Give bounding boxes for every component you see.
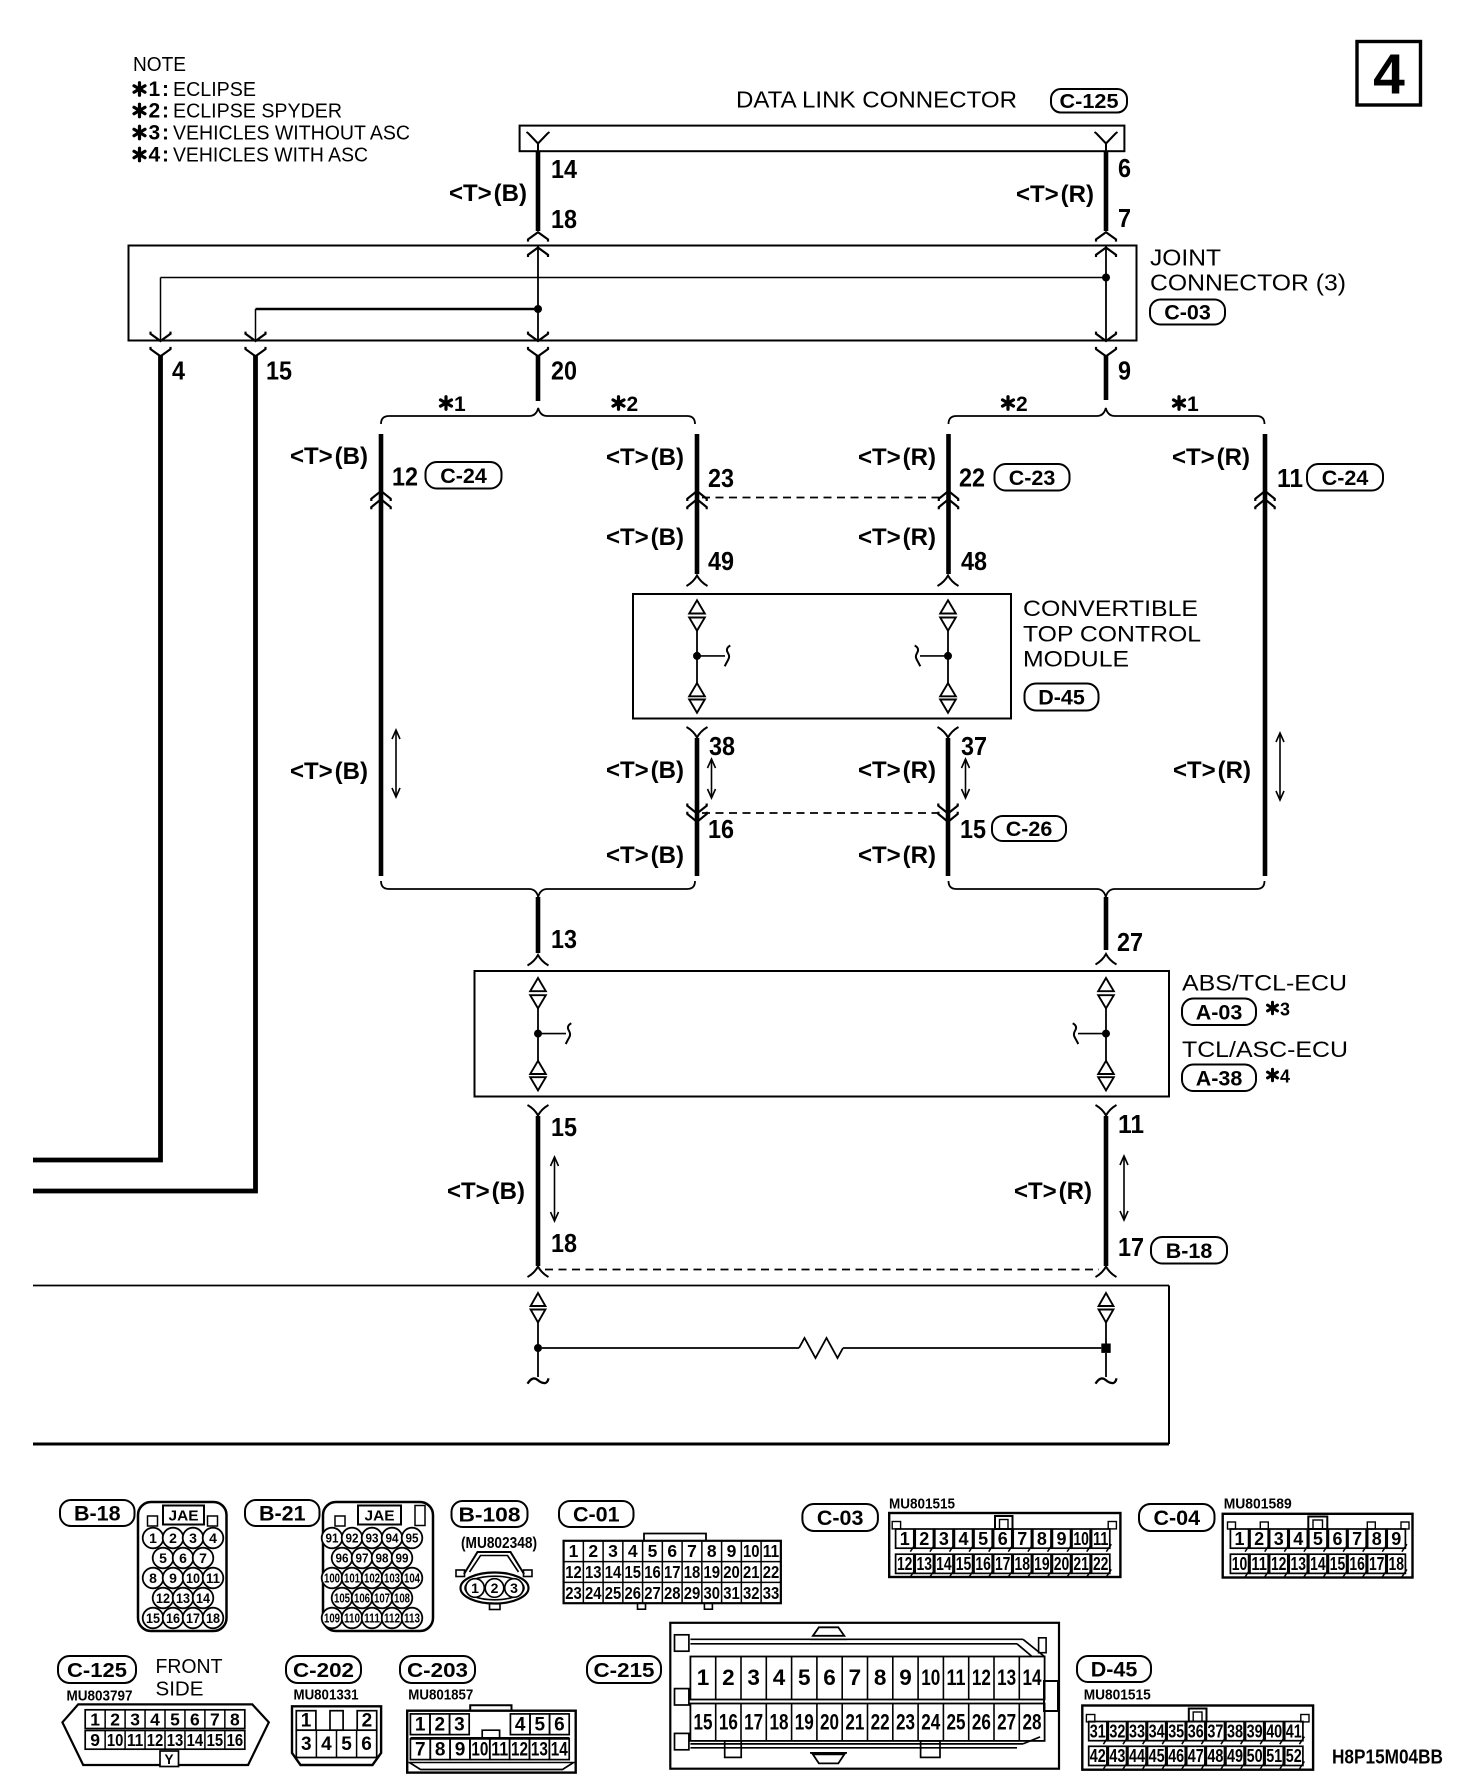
svg-text:109: 109 <box>324 1612 340 1626</box>
svg-text:VEHICLES WITHOUT ASC: VEHICLES WITHOUT ASC <box>173 123 410 145</box>
connector badge C-203 view <box>400 1656 475 1683</box>
variant label star3 <box>1268 1000 1291 1020</box>
svg-text:D-45: D-45 <box>1038 686 1085 710</box>
svg-text:12: 12 <box>897 1554 913 1574</box>
svg-text:<T>(B): <T>(B) <box>606 757 684 784</box>
svg-text:C-125: C-125 <box>1060 90 1119 113</box>
chevrons at joint connector pin 18 entry <box>528 232 548 257</box>
chevrons at joint connector pin 7 entry <box>1096 232 1116 257</box>
svg-text:48: 48 <box>1207 1746 1223 1766</box>
svg-text:103: 103 <box>384 1572 400 1586</box>
pin label 11 <box>1277 463 1303 493</box>
svg-text:17: 17 <box>744 1710 763 1735</box>
svg-text:15: 15 <box>207 1730 224 1750</box>
svg-text:32: 32 <box>1109 1721 1125 1741</box>
svg-text:6: 6 <box>179 1550 187 1566</box>
svg-text:7: 7 <box>687 1541 697 1561</box>
svg-text:3: 3 <box>1280 1000 1290 1020</box>
svg-text:5: 5 <box>170 1710 180 1730</box>
svg-text:6: 6 <box>190 1710 200 1730</box>
pin label 4 <box>172 356 185 386</box>
label DATA LINK CONNECTOR <box>736 87 1017 113</box>
pin label 27 <box>1117 927 1143 957</box>
svg-text:3: 3 <box>301 1734 312 1755</box>
wire label T B mid left branch1 <box>290 758 368 785</box>
terminating resistor box <box>33 1286 1169 1445</box>
svg-text:1: 1 <box>149 78 161 101</box>
connector badge C-202 view <box>286 1656 361 1683</box>
svg-text:11: 11 <box>1251 1554 1267 1574</box>
svg-text:27: 27 <box>997 1710 1016 1735</box>
svg-text:10: 10 <box>471 1740 488 1761</box>
pin label 14 <box>551 154 577 184</box>
svg-text:6: 6 <box>667 1541 677 1561</box>
svg-text:(MU802348): (MU802348) <box>461 1535 537 1552</box>
svg-text:NOTE: NOTE <box>133 54 186 76</box>
svg-text:C-26: C-26 <box>1006 817 1053 841</box>
svg-text:<T>(B): <T>(B) <box>290 443 368 470</box>
svg-text:1: 1 <box>569 1541 579 1561</box>
harness split brace right <box>949 408 1265 424</box>
svg-text:16: 16 <box>1349 1554 1365 1574</box>
svg-text:108: 108 <box>394 1592 410 1606</box>
svg-text:5: 5 <box>159 1550 167 1566</box>
svg-text:1: 1 <box>90 1710 100 1730</box>
svg-text:33: 33 <box>1129 1721 1145 1741</box>
svg-text:3: 3 <box>1274 1529 1284 1549</box>
svg-text:20: 20 <box>820 1710 839 1735</box>
connector badge C-125 view <box>58 1656 136 1683</box>
connector view B-108 <box>456 1535 537 1610</box>
svg-text:2: 2 <box>588 1541 598 1561</box>
svg-text:6: 6 <box>554 1715 565 1736</box>
connector badge C-24 left <box>426 462 502 489</box>
inter-branch dashed link upper <box>702 497 945 499</box>
svg-text:2: 2 <box>1254 1529 1264 1549</box>
chevrons at joint connector pin 20 exit <box>528 332 548 357</box>
svg-text:17: 17 <box>186 1610 200 1626</box>
connector view C-125 <box>62 1689 268 1767</box>
inter-branch dashed link lower <box>702 812 943 814</box>
wire branch spyder B (C-24 pin 23) <box>695 434 700 574</box>
svg-text:ECLIPSE SPYDER: ECLIPSE SPYDER <box>173 101 342 123</box>
svg-text:44: 44 <box>1129 1746 1145 1766</box>
variant label star2 left <box>613 393 638 416</box>
fork out of module pin 37 <box>938 727 959 738</box>
svg-text:7: 7 <box>849 1665 862 1690</box>
pin label 37 <box>961 731 987 761</box>
svg-text:1: 1 <box>454 393 466 416</box>
wire ABS pin 15 down <box>536 1116 541 1266</box>
pin label 22 <box>959 463 985 493</box>
svg-text:49: 49 <box>708 546 734 576</box>
twisted pair arrow branch4 <box>1276 733 1284 800</box>
svg-text:9: 9 <box>1118 356 1131 386</box>
svg-text:39: 39 <box>1247 1721 1263 1741</box>
note legend <box>133 54 410 167</box>
wire label T R branch3 <box>858 444 936 471</box>
svg-text:94: 94 <box>386 1532 399 1546</box>
svg-text:2: 2 <box>491 1580 499 1596</box>
svg-text:MODULE: MODULE <box>1023 647 1129 672</box>
variant label star1 right <box>1174 393 1200 416</box>
svg-text:2: 2 <box>110 1710 120 1730</box>
pin label 11 abs <box>1118 1109 1144 1139</box>
svg-text:19: 19 <box>703 1562 720 1582</box>
connector view B-21 <box>322 1502 433 1631</box>
page number 4 badge <box>1357 42 1421 107</box>
svg-text:21: 21 <box>1073 1554 1089 1574</box>
svg-text:11: 11 <box>1093 1529 1109 1549</box>
variant label star4 <box>1268 1067 1291 1087</box>
svg-text:16: 16 <box>644 1562 661 1582</box>
svg-text:95: 95 <box>406 1532 419 1546</box>
junction dot bus2 pin18 <box>534 305 542 313</box>
joint connector internal wire pin 4 <box>160 278 162 341</box>
svg-text:2: 2 <box>627 393 639 416</box>
svg-text:13: 13 <box>531 1740 548 1761</box>
svg-text:<T>(R): <T>(R) <box>1172 444 1250 471</box>
pin label 23 <box>708 463 734 493</box>
bottom box pin triangles left <box>531 1293 546 1323</box>
junction dot bus1 pin7 <box>1102 274 1110 282</box>
connector badge C-24 right <box>1307 464 1383 491</box>
svg-text:11: 11 <box>1118 1109 1144 1139</box>
fork into bottom box right <box>1096 1267 1117 1278</box>
svg-text:9: 9 <box>90 1730 100 1750</box>
connector badge C-01 view <box>559 1501 634 1527</box>
svg-text:99: 99 <box>396 1552 409 1566</box>
joint connector C-03 box <box>129 246 1137 341</box>
svg-text:2: 2 <box>149 100 161 123</box>
pin label 13 <box>551 924 577 954</box>
svg-text:9: 9 <box>455 1740 466 1761</box>
svg-text:22: 22 <box>871 1710 890 1735</box>
connector badge D-45 <box>1025 684 1099 711</box>
joint connector internal wire pin 7 down <box>1105 246 1107 341</box>
svg-text:10: 10 <box>921 1665 940 1690</box>
pin label 48 <box>961 546 987 576</box>
ABS internal pin circuit left <box>530 978 571 1090</box>
svg-text:13: 13 <box>176 1590 190 1606</box>
svg-text:MU801515: MU801515 <box>889 1497 955 1513</box>
svg-text:35: 35 <box>1168 1721 1184 1741</box>
svg-text:12: 12 <box>147 1730 164 1750</box>
wire from DLC pin 14 to joint connector pin 18 <box>536 151 541 231</box>
wire label T B left top <box>449 180 527 207</box>
wire stub to ABS pin 13 <box>536 897 541 953</box>
svg-text:D-45: D-45 <box>1091 1658 1138 1682</box>
svg-text:12: 12 <box>511 1740 528 1761</box>
fork out of ABS pin 15 <box>528 1105 549 1116</box>
chevrons connector pin 23 <box>687 491 706 509</box>
svg-text:4: 4 <box>209 1530 217 1546</box>
wire label T B branch1 <box>290 443 368 470</box>
svg-text:15: 15 <box>266 356 292 386</box>
svg-text:19: 19 <box>1034 1554 1050 1574</box>
connector badge A-03 <box>1182 999 1256 1026</box>
fork into ABS pin 13 <box>528 955 549 966</box>
wire branch eclipse B (C-24 pin 12) <box>379 434 384 876</box>
svg-text:5: 5 <box>1313 1529 1323 1549</box>
chevrons connector C-24 right <box>1255 491 1274 509</box>
svg-text:18: 18 <box>206 1610 220 1626</box>
chevrons connector C-23 <box>939 491 958 509</box>
svg-text:38: 38 <box>709 731 735 761</box>
svg-text:52: 52 <box>1286 1746 1302 1766</box>
svg-text:29: 29 <box>684 1583 701 1603</box>
wire label T B bottom <box>447 1178 525 1205</box>
svg-text:CONNECTOR (3): CONNECTOR (3) <box>1150 270 1346 296</box>
connector badge B-18 wire <box>1151 1237 1227 1264</box>
svg-text:18: 18 <box>1015 1554 1031 1574</box>
svg-text:25: 25 <box>605 1583 622 1603</box>
chevrons connector C-26 pin 15 <box>938 804 957 822</box>
svg-text:7: 7 <box>1352 1529 1362 1549</box>
DLC pin 14 socket fork <box>527 132 550 151</box>
svg-text:4: 4 <box>628 1541 638 1561</box>
bottom box wire left <box>537 1323 539 1349</box>
svg-text:1: 1 <box>301 1711 312 1732</box>
harness merge brace right <box>949 881 1265 897</box>
wire label T R low branch3 <box>858 842 936 869</box>
svg-text:31: 31 <box>1090 1721 1106 1741</box>
svg-text:<T>(R): <T>(R) <box>858 524 936 551</box>
twisted pair arrow branch2 <box>708 759 716 798</box>
wire joint pin 4 to page left edge <box>33 355 161 1160</box>
twisted pair arrow bottom right <box>1120 1156 1128 1220</box>
pin label 16 <box>708 814 734 844</box>
svg-text:28: 28 <box>664 1583 681 1603</box>
wire label T R above module <box>858 524 936 551</box>
svg-text:110: 110 <box>344 1612 360 1626</box>
terminal pad right <box>1101 1344 1110 1353</box>
svg-text:46: 46 <box>1168 1746 1184 1766</box>
svg-text:Y: Y <box>164 1752 173 1767</box>
svg-text:112: 112 <box>384 1612 400 1626</box>
svg-text:17: 17 <box>995 1554 1011 1574</box>
svg-text:36: 36 <box>1188 1721 1204 1741</box>
wire branch spyder R (C-23 pin 22) <box>946 434 951 574</box>
module internal pin circuit right <box>915 600 956 712</box>
twisted pair arrow branch1 <box>392 730 400 797</box>
svg-text:5: 5 <box>535 1715 546 1736</box>
svg-text:14: 14 <box>936 1554 952 1574</box>
svg-text:91: 91 <box>326 1532 339 1546</box>
connector badge C-23 <box>995 464 1070 491</box>
fork out of ABS pin 11 <box>1096 1105 1117 1116</box>
fork into module pin 48 <box>938 576 959 587</box>
svg-text:2: 2 <box>362 1711 373 1732</box>
connector view C-215 <box>670 1623 1059 1769</box>
svg-text:3: 3 <box>608 1541 618 1561</box>
dashed link bottom <box>545 1269 1099 1271</box>
svg-text::: : <box>162 144 169 167</box>
svg-text:6: 6 <box>998 1529 1008 1549</box>
svg-text:2: 2 <box>435 1715 446 1736</box>
joint connector internal wire pin 15 <box>255 309 257 341</box>
wire stub to ABS pin 27 <box>1104 897 1109 950</box>
ABS TCL ECU box <box>475 971 1170 1097</box>
svg-text:4: 4 <box>321 1734 332 1755</box>
svg-text:18: 18 <box>684 1562 701 1582</box>
svg-text:105: 105 <box>334 1592 350 1606</box>
svg-text:14: 14 <box>1022 1665 1041 1690</box>
svg-text:SIDE: SIDE <box>156 1678 204 1701</box>
svg-text:28: 28 <box>1022 1710 1041 1735</box>
svg-text:16: 16 <box>166 1610 180 1626</box>
svg-text:17: 17 <box>664 1562 681 1582</box>
svg-text:<T>(R): <T>(R) <box>1016 181 1094 208</box>
wire from DLC pin 6 to joint connector pin 7 <box>1104 151 1109 231</box>
twisted pair arrow bottom left <box>551 1157 559 1221</box>
svg-text:6: 6 <box>361 1734 372 1755</box>
svg-text:14: 14 <box>605 1562 622 1582</box>
svg-text:6: 6 <box>823 1665 836 1690</box>
svg-text:8: 8 <box>1372 1529 1382 1549</box>
DLC pin 6 socket fork <box>1095 132 1118 151</box>
svg-text:JOINT: JOINT <box>1150 245 1221 271</box>
svg-text:102: 102 <box>364 1572 380 1586</box>
svg-text:12: 12 <box>565 1562 582 1582</box>
svg-text:13: 13 <box>167 1730 184 1750</box>
connector view D-45 <box>1082 1688 1313 1770</box>
svg-text:15: 15 <box>1330 1554 1346 1574</box>
svg-text:51: 51 <box>1266 1746 1282 1766</box>
wire module pin 37 down <box>946 738 951 876</box>
svg-text:<T>(R): <T>(R) <box>858 444 936 471</box>
svg-text:4: 4 <box>1280 1067 1290 1087</box>
pin label 38 <box>709 731 735 761</box>
svg-text:113: 113 <box>404 1612 420 1626</box>
svg-text:37: 37 <box>961 731 987 761</box>
svg-text:B-18: B-18 <box>1166 1239 1213 1263</box>
svg-text:10: 10 <box>743 1541 760 1561</box>
connector badge B-108 view <box>452 1501 528 1527</box>
wire label T R mid branch4 <box>1173 757 1251 784</box>
svg-text:8: 8 <box>707 1541 717 1561</box>
svg-text:3: 3 <box>189 1530 197 1546</box>
svg-text:1: 1 <box>900 1529 910 1549</box>
wire label T R mid branch3 <box>858 757 936 784</box>
svg-text:42: 42 <box>1090 1746 1106 1766</box>
svg-text:32: 32 <box>743 1583 760 1603</box>
svg-text:1: 1 <box>415 1715 426 1736</box>
svg-text:45: 45 <box>1149 1746 1165 1766</box>
svg-text:17: 17 <box>1369 1554 1385 1574</box>
svg-text:18: 18 <box>551 204 577 234</box>
svg-text:B-21: B-21 <box>259 1502 306 1526</box>
svg-text:2: 2 <box>919 1529 929 1549</box>
svg-text:16: 16 <box>975 1554 991 1574</box>
bottom box pin triangles right <box>1099 1293 1114 1323</box>
svg-text:1: 1 <box>149 1530 157 1546</box>
svg-text:TCL/ASC-ECU: TCL/ASC-ECU <box>1182 1037 1348 1062</box>
svg-text:22: 22 <box>763 1562 780 1582</box>
svg-text:MU801515: MU801515 <box>1084 1688 1151 1704</box>
svg-text:4: 4 <box>1293 1529 1303 1549</box>
svg-text:1: 1 <box>697 1665 710 1690</box>
harness split brace left <box>381 408 695 424</box>
svg-text:13: 13 <box>917 1554 933 1574</box>
svg-text:8: 8 <box>149 1570 157 1586</box>
svg-text:21: 21 <box>845 1710 864 1735</box>
junction dot resistor left <box>534 1344 542 1352</box>
svg-text:12: 12 <box>156 1590 170 1606</box>
front side label <box>156 1655 223 1701</box>
svg-text:A-03: A-03 <box>1196 1000 1243 1024</box>
svg-text:8: 8 <box>874 1665 887 1690</box>
svg-text:A-38: A-38 <box>1196 1066 1243 1090</box>
svg-text:7: 7 <box>1017 1529 1027 1549</box>
svg-text:10: 10 <box>107 1730 124 1750</box>
svg-text:4: 4 <box>150 1710 160 1730</box>
wire label T R bottom <box>1014 1178 1092 1205</box>
svg-text:13: 13 <box>1291 1554 1307 1574</box>
svg-text:3: 3 <box>454 1715 465 1736</box>
svg-text:C-24: C-24 <box>1322 466 1369 490</box>
svg-text:24: 24 <box>585 1583 602 1603</box>
svg-text:13: 13 <box>997 1665 1016 1690</box>
svg-text:C-202: C-202 <box>293 1659 354 1682</box>
pin label 18 bottom <box>551 1228 577 1258</box>
svg-text:MU801331: MU801331 <box>294 1688 359 1704</box>
svg-text:15: 15 <box>960 814 986 844</box>
connector badge A-38 <box>1182 1065 1256 1092</box>
svg-text:30: 30 <box>703 1583 720 1603</box>
wire joint pin 20 stub <box>536 355 541 401</box>
svg-text:11: 11 <box>491 1740 508 1761</box>
svg-text:6: 6 <box>1332 1529 1342 1549</box>
svg-text:5: 5 <box>978 1529 988 1549</box>
svg-text:4: 4 <box>149 144 161 167</box>
svg-text:12: 12 <box>392 462 418 492</box>
svg-text:11: 11 <box>763 1541 780 1561</box>
svg-text:14: 14 <box>196 1590 210 1606</box>
connector view C-03 <box>889 1497 1120 1578</box>
chevrons at joint connector pin 15 exit <box>246 332 266 357</box>
pin label 7 <box>1118 203 1131 233</box>
connector badge C-26 <box>992 816 1066 841</box>
wire label T R branch4 <box>1172 444 1250 471</box>
joint connector bus bar 2 <box>256 308 539 311</box>
svg-text:JAE: JAE <box>169 1508 199 1525</box>
connector badge C-03 <box>1150 300 1225 325</box>
chevrons connector pin 16 <box>687 804 706 822</box>
svg-text:8: 8 <box>1037 1529 1047 1549</box>
connector badge C-125 <box>1051 89 1127 113</box>
wire label T B branch2 <box>606 444 684 471</box>
svg-text:23: 23 <box>565 1583 582 1603</box>
wire branch eclipse R (C-24 pin 11) <box>1263 434 1268 876</box>
svg-text:9: 9 <box>169 1570 177 1586</box>
pin label 18 <box>551 204 577 234</box>
svg-text:25: 25 <box>947 1710 966 1735</box>
svg-text:<T>(B): <T>(B) <box>447 1178 525 1205</box>
fork into module pin 49 <box>687 576 708 587</box>
connector badge C-215 view <box>587 1656 661 1683</box>
data link connector C-125 box <box>520 126 1125 152</box>
svg-text:24: 24 <box>921 1710 940 1735</box>
connector view C-203 <box>407 1688 576 1773</box>
svg-text:MU801857: MU801857 <box>408 1688 473 1704</box>
variant label star2 right <box>1003 393 1028 416</box>
svg-text:111: 111 <box>364 1612 380 1626</box>
svg-text:104: 104 <box>404 1572 420 1586</box>
svg-text:15: 15 <box>146 1610 160 1626</box>
fork into ABS pin 27 <box>1096 954 1117 965</box>
svg-text:18: 18 <box>769 1710 788 1735</box>
